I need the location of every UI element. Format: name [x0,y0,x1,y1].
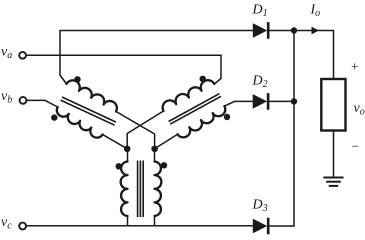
junction node n1 [124,146,131,153]
ground [323,178,343,186]
wire bottom right winding stub [154,216,156,226]
wire va horizontal [27,54,221,56]
junction node n2 [151,146,158,153]
wire left upper winding to top and D1 anode [60,31,253,85]
wire node n1 to left lower winding [103,135,128,149]
svg-text:vo: vo [354,101,365,118]
wire right upper winding through crossing to node n1 [127,111,163,149]
svg-text:−: − [352,139,359,154]
core right branch [169,94,221,125]
wire va to right upper winding [214,55,221,84]
svg-text:D2: D2 [252,74,268,91]
resistor load [321,79,345,131]
diode D3 [253,219,267,234]
wire D2 cathode to bus node [270,100,295,102]
polarity dot left lower [51,114,57,120]
polarity dot left upper [74,76,80,82]
svg-text:Io: Io [310,3,321,20]
junction node D2 cathode [291,98,297,104]
wire cathode bus vertical [293,31,295,227]
winding bottom left [121,162,128,217]
winding left lower [57,107,103,138]
svg-text:vb: vb [1,89,12,106]
winding bottom right [155,162,162,217]
core bottom branch [138,161,144,218]
wire resistor to ground [333,131,335,178]
junction node P top [291,27,297,33]
wire right lower winding to D2 anode [224,101,252,106]
svg-text:+: + [351,59,358,74]
terminal vb [20,97,27,104]
arrow Io [312,27,320,35]
wire node n2 to bottom right winding [154,149,156,162]
wire node n2 to right lower winding [155,134,178,149]
diode D2 [253,94,267,109]
winding right upper [163,80,215,111]
winding left upper [67,80,117,111]
polarity dot right lower [224,114,230,120]
terminal va [19,52,26,59]
polarity dot right upper [200,76,206,82]
wire vb to left lower winding [27,100,57,107]
diode D1 [253,23,267,38]
wire load corner down to resistor [333,31,335,80]
polarity dot bottom right [161,162,167,168]
svg-text:va: va [1,45,12,62]
wire left upper winding through crossing to node n2 [116,112,155,149]
core left branch [61,97,116,125]
svg-text:D3: D3 [252,198,268,215]
polarity dot bottom left [116,163,122,169]
wire D3 cathode to bus [269,225,294,227]
wire node n1 to bottom left winding [127,149,129,162]
wire bottom left winding stub [127,216,129,226]
wire node P to load corner [294,30,334,32]
svg-text:D1: D1 [252,3,268,20]
wire bottom vc to D3 anode [27,225,253,227]
terminal vc [19,223,26,230]
svg-text:vc: vc [1,215,12,232]
winding right lower [178,106,226,137]
wire D1 cathode to node P [269,30,294,32]
